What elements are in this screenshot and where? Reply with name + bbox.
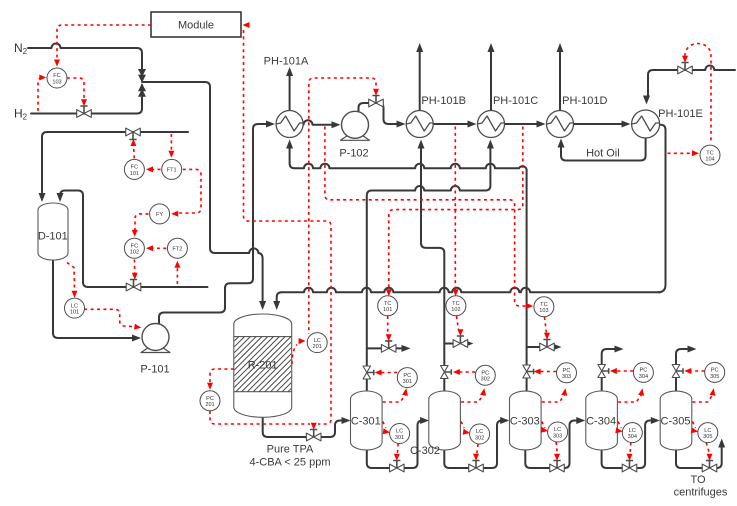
svg-text:303: 303 <box>553 433 562 439</box>
svg-text:FC: FC <box>131 165 138 171</box>
svg-text:201: 201 <box>205 402 214 408</box>
svg-text:LC: LC <box>396 429 403 435</box>
svg-text:PC: PC <box>481 371 489 377</box>
svg-text:302: 302 <box>475 435 484 441</box>
svg-text:LC: LC <box>629 428 636 434</box>
svg-text:PH-101E: PH-101E <box>658 108 703 120</box>
svg-text:101: 101 <box>130 171 139 177</box>
svg-text:P-102: P-102 <box>339 148 368 160</box>
svg-text:301: 301 <box>403 379 412 385</box>
svg-text:TC: TC <box>540 302 547 308</box>
svg-text:C-305: C-305 <box>661 416 691 428</box>
svg-text:103: 103 <box>52 79 61 85</box>
svg-text:104: 104 <box>705 157 714 163</box>
svg-text:201: 201 <box>313 344 322 350</box>
svg-text:LC: LC <box>704 428 711 434</box>
svg-text:PC: PC <box>206 396 214 402</box>
svg-text:R-201: R-201 <box>248 360 278 372</box>
svg-text:PC: PC <box>640 368 648 374</box>
svg-text:103: 103 <box>539 308 548 314</box>
svg-text:FT2: FT2 <box>172 247 182 253</box>
svg-text:PH-101C: PH-101C <box>493 95 538 107</box>
svg-text:Hot Oil: Hot Oil <box>586 148 620 160</box>
svg-text:TC: TC <box>706 150 713 156</box>
svg-text:TC: TC <box>452 301 459 307</box>
svg-text:C-302: C-302 <box>410 445 440 457</box>
svg-text:Pure TPA: Pure TPA <box>267 444 314 456</box>
svg-text:101: 101 <box>383 307 392 313</box>
svg-text:D-101: D-101 <box>38 231 68 243</box>
svg-text:LC: LC <box>71 303 78 309</box>
svg-text:LC: LC <box>314 338 321 344</box>
svg-text:FY: FY <box>156 212 163 218</box>
svg-text:PC: PC <box>403 373 411 379</box>
svg-text:102: 102 <box>130 250 139 256</box>
svg-text:101: 101 <box>70 310 79 316</box>
svg-text:PC: PC <box>711 368 719 374</box>
svg-text:PC: PC <box>563 368 571 374</box>
svg-text:FT1: FT1 <box>167 168 177 174</box>
svg-text:PH-101A: PH-101A <box>264 56 309 68</box>
svg-text:P-101: P-101 <box>140 364 169 376</box>
svg-text:304: 304 <box>628 434 637 440</box>
svg-text:102: 102 <box>451 307 460 313</box>
svg-text:304: 304 <box>639 374 648 380</box>
svg-text:C-301: C-301 <box>351 416 381 428</box>
svg-text:4-CBA < 25 ppm: 4-CBA < 25 ppm <box>249 457 330 469</box>
svg-text:301: 301 <box>395 435 404 441</box>
svg-text:C-304: C-304 <box>586 416 616 428</box>
svg-text:PH-101D: PH-101D <box>562 95 607 107</box>
svg-text:305: 305 <box>703 434 712 440</box>
svg-text:C-303: C-303 <box>510 416 540 428</box>
svg-text:TC: TC <box>384 301 391 307</box>
svg-text:305: 305 <box>710 374 719 380</box>
svg-text:Module: Module <box>178 20 214 32</box>
svg-text:TO: TO <box>690 474 706 486</box>
svg-text:302: 302 <box>481 377 490 383</box>
svg-text:FC: FC <box>53 73 60 79</box>
svg-text:303: 303 <box>562 374 571 380</box>
svg-text:centrifuges: centrifuges <box>674 487 728 499</box>
svg-text:LC: LC <box>476 429 483 435</box>
svg-text:FC: FC <box>131 244 138 250</box>
svg-text:PH-101B: PH-101B <box>421 95 466 107</box>
svg-text:LC: LC <box>554 427 561 433</box>
